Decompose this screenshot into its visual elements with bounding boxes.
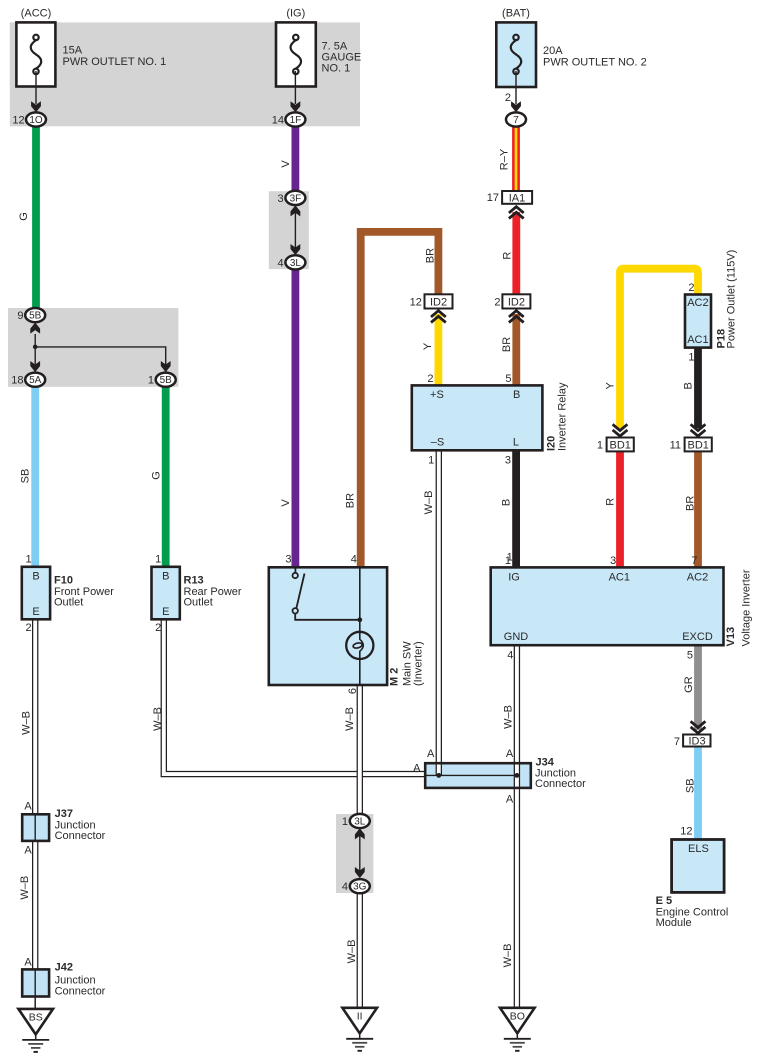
svg-text:BD1: BD1 (609, 440, 630, 452)
svg-text:3F: 3F (290, 193, 302, 204)
svg-text:F10: F10 (54, 574, 73, 586)
svg-text:A: A (413, 763, 421, 775)
wire GR from V13 EXCD to ID3 (683, 645, 698, 730)
svg-text:3L: 3L (290, 258, 302, 269)
svg-text:17: 17 (487, 192, 499, 204)
svg-text:II: II (357, 1011, 363, 1023)
wire V from 1F to 3F (280, 124, 296, 194)
svg-text:3: 3 (277, 193, 283, 205)
svg-text:R: R (605, 498, 617, 506)
svg-text:A: A (24, 956, 32, 968)
svg-text:12: 12 (680, 826, 692, 838)
wire W-B 3G to ground II (346, 891, 360, 1008)
connector oval 7 (506, 112, 526, 126)
M2 labels (347, 641, 424, 694)
main switch M2 (inverter) (269, 554, 387, 685)
power outlet P18 (115V) (685, 250, 738, 364)
lamp inside M2 (346, 567, 373, 685)
svg-text:7: 7 (691, 555, 697, 567)
svg-text:9: 9 (17, 310, 23, 322)
svg-text:W–B: W–B (344, 707, 356, 731)
wire R from BD1 to V13 AC1 (605, 451, 621, 567)
fuse IG 7.5A GAUGE NO.1 (276, 8, 361, 113)
svg-text:5B: 5B (160, 375, 173, 386)
wire R-Y from fuse oval 7 to IA1 (498, 124, 516, 192)
svg-text:Outlet: Outlet (184, 597, 213, 609)
svg-text:W–B: W–B (152, 707, 164, 731)
svg-text:+S: +S (430, 389, 444, 401)
wire R from IA1 to ID2 right (502, 212, 517, 295)
svg-text:1: 1 (155, 554, 161, 566)
wire G from 5B to R13 (150, 384, 165, 567)
svg-text:2: 2 (155, 622, 161, 634)
junction connector J34 (413, 748, 586, 806)
svg-text:Connector: Connector (55, 830, 106, 842)
svg-text:B: B (513, 389, 520, 401)
connector oval 1F pin 14 (272, 112, 306, 126)
svg-text:E: E (162, 606, 169, 618)
connector box ID2 pin 12 (410, 294, 453, 385)
svg-text:V: V (280, 499, 292, 507)
svg-text:5: 5 (687, 650, 693, 662)
svg-text:W–B: W–B (19, 876, 31, 900)
svg-text:V13: V13 (725, 627, 737, 647)
connector box ID3 pin 7 (674, 721, 711, 748)
arrow down into 5A (30, 361, 40, 372)
svg-text:1: 1 (25, 554, 31, 566)
svg-text:PWR OUTLET NO. 2: PWR OUTLET NO. 2 (543, 56, 647, 68)
svg-text:1O: 1O (29, 115, 43, 126)
connector ovals 3L/3G bottom with arrows (355, 828, 365, 878)
svg-text:4: 4 (507, 650, 513, 662)
svg-text:W–B: W–B (502, 705, 514, 729)
svg-text:AC1: AC1 (609, 571, 630, 583)
wire W-B horizontal run R13 to J34 (152, 619, 426, 774)
svg-text:B: B (32, 570, 39, 582)
svg-text:(BAT): (BAT) (502, 8, 530, 20)
svg-text:B: B (501, 499, 513, 506)
connector box ID2 pin 2 (494, 294, 530, 385)
svg-text:W–B: W–B (346, 939, 358, 963)
svg-text:A: A (24, 845, 32, 857)
svg-text:AC1: AC1 (687, 334, 708, 346)
svg-text:BR: BR (501, 337, 513, 352)
connector oval 3F pin 3 (277, 191, 305, 205)
svg-text:Y: Y (422, 342, 434, 350)
wire BR from ID2 right to relay B (501, 314, 516, 385)
svg-text:(ACC): (ACC) (21, 8, 52, 20)
svg-text:2: 2 (505, 92, 511, 104)
svg-text:–S: –S (431, 437, 444, 449)
connector oval 3G pin 4 (342, 879, 370, 893)
gray band connector 3F-3L (269, 191, 309, 269)
junction band 5B: arrow up into 5B (30, 322, 40, 373)
svg-text:7: 7 (674, 736, 680, 748)
connector oval 5B pin 9 (17, 308, 45, 322)
svg-text:J42: J42 (55, 961, 73, 973)
svg-text:AC2: AC2 (687, 297, 708, 309)
svg-text:E 5: E 5 (656, 895, 673, 907)
svg-text:15A: 15A (63, 45, 83, 57)
svg-text:1F: 1F (290, 115, 302, 126)
svg-text:GR: GR (683, 676, 695, 693)
gray bus band top (ACC/IG feed) (10, 22, 360, 126)
svg-text:NO. 1: NO. 1 (322, 63, 351, 75)
svg-text:3: 3 (285, 554, 291, 566)
wire W-B V13 GND through J34 to ground BO (502, 645, 517, 1008)
connector oval 1O pin 12 (12, 112, 46, 126)
svg-text:G: G (150, 471, 162, 480)
wire BR from BD1 to V13 AC2 (684, 451, 698, 567)
svg-text:ELS: ELS (688, 843, 709, 855)
svg-text:M 2: M 2 (389, 668, 401, 686)
svg-text:4: 4 (277, 257, 283, 269)
svg-text:BR: BR (345, 493, 357, 508)
svg-text:11: 11 (670, 439, 681, 451)
fuse ACC 15A PWR OUTLET NO.1 (16, 8, 166, 113)
wire SB from 5A to F10 (20, 384, 36, 567)
node branch: horizontal link to 5B right (33, 345, 166, 372)
switch contact inside M2 (293, 567, 360, 620)
svg-text:3G: 3G (353, 882, 367, 893)
svg-text:SB: SB (20, 469, 32, 484)
svg-text:4: 4 (351, 554, 357, 566)
wire BR from M2 pin 4 up over to ID2 left (345, 232, 439, 567)
svg-text:A: A (506, 794, 514, 806)
svg-text:A: A (506, 748, 514, 760)
svg-text:Y: Y (605, 381, 617, 389)
svg-text:Voltage Inverter: Voltage Inverter (741, 569, 753, 646)
svg-text:(IG): (IG) (286, 8, 305, 20)
svg-text:B: B (162, 570, 169, 582)
svg-text:18: 18 (11, 375, 23, 387)
svg-text:E: E (32, 606, 39, 618)
svg-text:Connector: Connector (535, 778, 586, 790)
svg-text:1: 1 (428, 455, 434, 467)
svg-text:3: 3 (505, 455, 511, 467)
svg-text:(Inverter): (Inverter) (413, 641, 425, 686)
svg-text:IG: IG (508, 571, 520, 583)
svg-text:W–B: W–B (502, 943, 514, 967)
wire Y from ID2 left to relay +S (422, 314, 438, 385)
svg-text:J37: J37 (55, 808, 73, 820)
connector box BD1 pin 11 (670, 424, 712, 451)
ECM box ELS terminal (656, 826, 729, 929)
svg-text:W–B: W–B (423, 491, 435, 515)
svg-text:V: V (280, 160, 292, 168)
svg-text:5B: 5B (29, 311, 42, 322)
svg-text:6: 6 (347, 688, 359, 694)
svg-text:20A: 20A (543, 45, 563, 57)
connector oval 5A pin 18 (11, 373, 45, 387)
wire W-B relay -S to J34 (423, 450, 439, 775)
rear power outlet R13 (152, 554, 242, 634)
svg-text:2: 2 (25, 622, 31, 634)
svg-text:PWR OUTLET NO. 1: PWR OUTLET NO. 1 (63, 56, 167, 68)
svg-text:12: 12 (410, 297, 422, 309)
svg-text:GND: GND (504, 631, 529, 643)
wire W-B F10 E to J37 J42 ground BS (19, 619, 35, 997)
svg-text:2: 2 (427, 373, 433, 385)
ground BO (500, 1008, 535, 1051)
svg-text:3: 3 (610, 555, 616, 567)
junction connector J37 (22, 800, 105, 856)
svg-text:L: L (513, 437, 519, 449)
svg-text:G: G (18, 212, 30, 221)
svg-text:ID3: ID3 (688, 735, 705, 747)
fuse BAT 20A PWR OUTLET NO.2 (496, 8, 646, 113)
ground BS (18, 997, 53, 1052)
svg-text:Outlet: Outlet (54, 597, 83, 609)
gray band junction 5B-5A (8, 308, 178, 387)
gray band connector 3L-3G (336, 814, 373, 893)
svg-text:SB: SB (684, 778, 696, 793)
wire B from P18 AC1 to BD1 (683, 348, 698, 428)
svg-text:R–Y: R–Y (498, 148, 510, 170)
wire W-B M2 pin 6 to 3L (344, 685, 360, 816)
voltage inverter V13 (491, 555, 753, 662)
svg-text:1: 1 (688, 352, 694, 364)
svg-text:ID2: ID2 (508, 296, 525, 308)
wire V from 3L to M2 pin 3 (280, 266, 296, 567)
svg-text:7: 7 (513, 115, 519, 126)
wire SB from ID3 to ELS (684, 746, 698, 840)
connector oval 3L pin 4 (277, 255, 305, 269)
svg-text:Connector: Connector (55, 986, 106, 998)
svg-text:BR: BR (684, 496, 696, 511)
connector ovals 3F/3L with arrows (291, 205, 301, 255)
svg-text:1: 1 (505, 555, 511, 567)
connector box BD1 pin 1 (597, 424, 634, 451)
svg-text:B: B (683, 382, 695, 389)
svg-text:2: 2 (494, 297, 500, 309)
svg-text:12: 12 (12, 114, 24, 126)
svg-text:W–B: W–B (20, 711, 32, 735)
arrow down into 5B right (161, 361, 171, 372)
svg-text:IA1: IA1 (509, 192, 526, 204)
svg-text:A: A (24, 800, 32, 812)
svg-text:R13: R13 (184, 574, 204, 586)
relay I20 Inverter Relay (412, 382, 569, 563)
svg-text:1: 1 (148, 375, 154, 387)
svg-text:BS: BS (29, 1012, 43, 1024)
svg-text:4: 4 (342, 881, 348, 893)
svg-text:BR: BR (425, 248, 437, 263)
svg-text:BD1: BD1 (687, 440, 708, 452)
svg-text:Power Outlet (115V): Power Outlet (115V) (726, 250, 738, 349)
svg-text:1: 1 (597, 439, 603, 451)
ground II (342, 1008, 377, 1051)
svg-text:1: 1 (342, 816, 348, 828)
wire B from relay L to V13 IG (501, 450, 517, 567)
svg-text:5: 5 (505, 373, 511, 385)
svg-text:A: A (427, 748, 435, 760)
svg-text:AC2: AC2 (687, 571, 708, 583)
svg-text:5A: 5A (29, 375, 42, 386)
svg-text:R: R (502, 252, 514, 260)
svg-text:EXCD: EXCD (682, 631, 713, 643)
svg-text:BO: BO (510, 1011, 525, 1023)
svg-text:2: 2 (688, 282, 694, 294)
junction connector J42 (22, 956, 105, 997)
svg-text:Inverter Relay: Inverter Relay (557, 382, 569, 451)
svg-text:ID2: ID2 (430, 296, 447, 308)
svg-text:3L: 3L (354, 816, 366, 827)
connector box IA1 pin 17 (487, 191, 532, 219)
connector oval 5B pin 1 (148, 373, 176, 387)
svg-text:14: 14 (272, 114, 284, 126)
connector oval 3L pin 1 (342, 814, 370, 828)
wire Y inverted-U from BD1 to P18 AC2 (605, 269, 698, 428)
wire G from 1O to 5B (18, 124, 36, 310)
svg-text:Module: Module (656, 917, 692, 929)
front power outlet F10 (22, 554, 114, 634)
